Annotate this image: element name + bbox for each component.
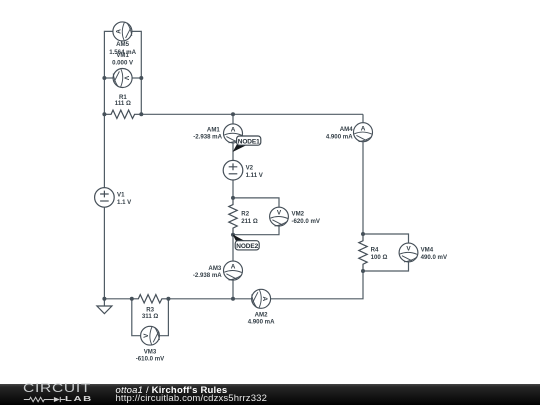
node tag NODE2 bbox=[233, 234, 260, 250]
svg-text:V: V bbox=[143, 333, 150, 338]
svg-text:211 Ω: 211 Ω bbox=[241, 218, 258, 225]
svg-text:100 Ω: 100 Ω bbox=[371, 254, 388, 261]
CircuitLab logo LAB text bbox=[65, 396, 93, 403]
wire node A to AM1 bbox=[232, 114, 234, 124]
svg-text:VM2: VM2 bbox=[292, 211, 305, 218]
wire AM1 to V2 bbox=[232, 143, 234, 161]
wire left rail VM1 to R1 bbox=[103, 78, 105, 114]
wire AM4 to R4 bbox=[362, 142, 364, 234]
resistor R3 bbox=[132, 295, 169, 303]
voltmeter VM4 bbox=[399, 243, 418, 262]
svg-text:VM1: VM1 bbox=[116, 52, 129, 59]
svg-text:NODE1: NODE1 bbox=[238, 138, 260, 145]
node: bottom rail / AM3 branch junction bbox=[231, 297, 235, 301]
wire bottom rail R3 to ground node bbox=[104, 298, 131, 300]
svg-text:A: A bbox=[361, 125, 366, 132]
svg-text:111 Ω: 111 Ω bbox=[115, 100, 131, 107]
svg-text:A: A bbox=[231, 264, 236, 271]
node: R2 top junction bbox=[231, 196, 235, 200]
node: R2 bottom junction (NODE2) bbox=[231, 233, 235, 237]
svg-text:V1: V1 bbox=[117, 191, 125, 198]
wire VM1 right lead bbox=[132, 77, 141, 79]
svg-text:1.1 V: 1.1 V bbox=[117, 199, 132, 206]
wire R4 bottom to bottom rail bbox=[271, 271, 363, 299]
svg-text:AM5: AM5 bbox=[116, 41, 129, 48]
svg-text:V2: V2 bbox=[246, 164, 254, 171]
svg-text:V: V bbox=[123, 76, 130, 81]
wire left top loop (AM5 left lead) bbox=[104, 31, 113, 78]
wire AM3 to bottom rail bbox=[232, 280, 234, 299]
voltage source V2 bbox=[223, 160, 243, 180]
footer url line bbox=[116, 393, 268, 404]
svg-text:0.000 V: 0.000 V bbox=[112, 60, 134, 67]
svg-text:V: V bbox=[406, 246, 411, 253]
node: VM1 right junction bbox=[139, 76, 143, 80]
voltmeter VM2 bbox=[270, 207, 289, 226]
svg-text:NODE2: NODE2 bbox=[236, 243, 258, 250]
node: R3 right junction bbox=[166, 297, 170, 301]
wire VM4 bottom lead bbox=[363, 262, 409, 271]
wire V1 to ground node bbox=[103, 207, 105, 299]
footer title line bbox=[116, 385, 228, 396]
CircuitLab logo wordmark bbox=[23, 383, 91, 395]
svg-text:VM3: VM3 bbox=[144, 348, 157, 355]
wire VM2 bottom lead bbox=[233, 226, 279, 235]
voltmeter VM1 bbox=[113, 69, 132, 88]
svg-text:-610.0 mV: -610.0 mV bbox=[136, 355, 165, 362]
svg-text:A: A bbox=[261, 296, 268, 301]
footer bar bbox=[0, 384, 540, 405]
wire right top loop (AM5 right lead) bbox=[132, 31, 141, 78]
svg-text:R2: R2 bbox=[241, 211, 249, 218]
node: top rail / AM1 branch junction bbox=[231, 112, 235, 116]
svg-text:-2.938 mA: -2.938 mA bbox=[193, 133, 222, 140]
wire VM3 right lead bbox=[159, 299, 168, 336]
svg-text:1.11 V: 1.11 V bbox=[246, 172, 264, 179]
voltmeter VM3 bbox=[141, 326, 160, 345]
svg-text:R4: R4 bbox=[371, 247, 379, 254]
node: VM1 left junction bbox=[102, 76, 106, 80]
node: R3 left junction bbox=[130, 297, 134, 301]
CircuitLab logo resistor-diode glyph bbox=[23, 396, 68, 403]
wire V2 to R2 bbox=[232, 180, 234, 198]
wire ground stem bbox=[103, 299, 105, 306]
svg-text:AM1: AM1 bbox=[207, 126, 220, 133]
wire left rail R1 to V1 bbox=[103, 114, 105, 187]
ammeter AM2 bbox=[252, 289, 271, 308]
wire VM1 left lead bbox=[104, 77, 113, 79]
wire right loop VM1 to R1 bbox=[140, 78, 142, 114]
wire bottom rail AM2 to R3 bbox=[168, 298, 251, 300]
node: ground junction bbox=[102, 297, 106, 301]
wire VM4 top lead bbox=[363, 234, 409, 243]
svg-text:-2.938 mA: -2.938 mA bbox=[193, 272, 222, 279]
node: R1 left junction bbox=[102, 112, 106, 116]
svg-text:490.0 mV: 490.0 mV bbox=[421, 254, 448, 261]
node: R4 bottom junction bbox=[361, 269, 365, 273]
svg-text:311 Ω: 311 Ω bbox=[142, 313, 159, 320]
voltage source V1 bbox=[95, 188, 115, 208]
wire VM3 left lead bbox=[132, 299, 141, 336]
ground bbox=[97, 306, 112, 314]
svg-text:4.900 mA: 4.900 mA bbox=[326, 134, 353, 141]
node: R4 top junction bbox=[361, 232, 365, 236]
svg-text:V: V bbox=[277, 210, 282, 217]
ammeter AM1 bbox=[224, 124, 243, 143]
node: R1 right junction bbox=[139, 112, 143, 116]
svg-text:4.900 mA: 4.900 mA bbox=[248, 318, 275, 325]
wire top rail bbox=[141, 113, 363, 115]
ammeter AM5 bbox=[113, 22, 132, 41]
ammeter AM4 bbox=[354, 123, 373, 142]
node tag NODE1 bbox=[233, 136, 261, 152]
svg-text:-620.0 mV: -620.0 mV bbox=[292, 218, 321, 225]
svg-text:AM2: AM2 bbox=[255, 311, 268, 318]
resistor R4 bbox=[359, 234, 367, 271]
svg-text:AM4: AM4 bbox=[340, 126, 353, 133]
svg-text:VM4: VM4 bbox=[421, 247, 434, 254]
resistor R2 bbox=[229, 198, 237, 235]
wire top right corner to AM4 bbox=[362, 114, 364, 122]
svg-text:A: A bbox=[231, 126, 236, 133]
svg-text:A: A bbox=[116, 29, 123, 34]
wire R2 bottom to AM3 bbox=[232, 235, 234, 261]
resistor R1 bbox=[104, 110, 141, 118]
ammeter AM3 bbox=[224, 261, 243, 280]
wire VM2 top lead bbox=[233, 198, 279, 207]
